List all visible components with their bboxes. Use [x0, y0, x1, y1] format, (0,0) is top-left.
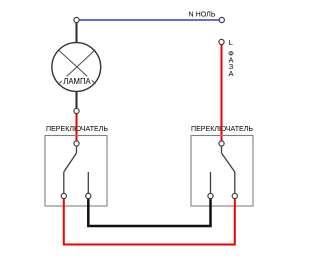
switch SW1 body — [45, 136, 107, 207]
lamp U1 — [52, 43, 101, 92]
wire lamp top — [76, 20, 78, 45]
node lamp bottom terminal — [74, 108, 79, 113]
switch SW1 (left) — [45, 124, 108, 206]
wire red: lamp bottom terminal to left switch — [76, 111, 78, 142]
node SW2 right bottom terminal — [232, 193, 237, 198]
node SW1 left bottom terminal — [61, 193, 66, 198]
svg-text:N НОЛЬ: N НОЛЬ — [189, 10, 216, 19]
red wire over label — [221, 124, 223, 142]
SW1 common stub — [76, 144, 78, 153]
node lamp top terminal — [74, 17, 79, 22]
wire lamp bottom — [76, 89, 78, 111]
SW1 left throw — [63, 172, 65, 196]
wire traveller red: SW1 left to SW2 right — [64, 197, 235, 245]
node N terminal — [219, 17, 224, 22]
SW2 left throw (open) — [210, 172, 212, 196]
node SW2 top terminal — [219, 141, 224, 146]
SW1 lever — [64, 153, 77, 172]
SW2 common stub — [221, 144, 223, 153]
wire N neutral (blue) — [78, 19, 222, 21]
node L terminal — [219, 39, 224, 44]
svg-text:L: L — [229, 38, 233, 47]
label ФАЗА (vertical) — [228, 49, 234, 78]
SW1 right throw (open) — [87, 172, 89, 196]
svg-text:А: А — [228, 69, 233, 78]
red wire over label — [76, 124, 78, 142]
switch SW2 body — [191, 136, 253, 207]
node SW2 left bottom terminal — [208, 193, 213, 198]
wire traveller black: SW1 right to SW2 left — [88, 197, 210, 226]
node SW1 right bottom terminal — [86, 193, 91, 198]
SW2 lever — [222, 153, 235, 172]
SW2 right throw — [234, 172, 236, 196]
node SW1 top terminal — [74, 141, 79, 146]
wire phase red: L terminal to right switch — [221, 42, 223, 142]
switch SW2 (right) — [191, 124, 253, 206]
svg-text:ЛАМПА: ЛАМПА — [63, 77, 91, 86]
